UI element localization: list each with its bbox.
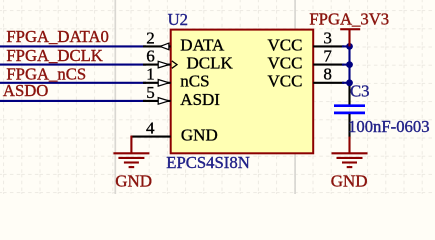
junction at pin 8 — [346, 79, 353, 86]
sheet zone border line right — [294, 0, 296, 194]
wire net FPGA_nCS — [0, 82, 146, 84]
capacitor C3 top plate — [334, 104, 365, 107]
capacitor C3 top lead — [348, 86, 350, 105]
junction at pin 7 — [346, 61, 353, 68]
svg-text:U2: U2 — [168, 10, 188, 29]
svg-text:3: 3 — [323, 28, 332, 47]
svg-text:8: 8 — [323, 65, 332, 84]
svg-text:100nF-0603: 100nF-0603 — [348, 117, 430, 136]
svg-text:FPGA_DATA0: FPGA_DATA0 — [6, 27, 109, 46]
power ground stem (right) — [348, 137, 350, 154]
wire VCC vertical rail — [348, 45, 350, 87]
wire net ASDO — [0, 100, 146, 102]
svg-text:4: 4 — [146, 119, 155, 138]
pin 2 DATA — [143, 45, 171, 47]
sheet zone border line left — [114, 0, 116, 194]
pin 5 input arrow — [158, 98, 169, 105]
svg-text:VCC: VCC — [268, 54, 303, 73]
pin 5 ASDI — [143, 100, 171, 102]
capacitor C3 bottom lead — [348, 114, 350, 137]
svg-text:VCC: VCC — [268, 72, 303, 91]
svg-text:7: 7 — [323, 47, 332, 66]
svg-text:FPGA_DCLK: FPGA_DCLK — [6, 46, 102, 65]
pin 6 clock symbol — [172, 61, 177, 68]
pin 1 nCS — [143, 82, 171, 84]
svg-text:1: 1 — [146, 65, 155, 84]
svg-text:FPGA_3V3: FPGA_3V3 — [309, 10, 389, 29]
pin 2 output arrow — [160, 43, 169, 50]
pin 6 DCLK — [143, 64, 171, 66]
svg-text:nCS: nCS — [180, 72, 209, 91]
svg-text:C3: C3 — [350, 82, 369, 101]
pin 6 input arrow — [158, 61, 169, 68]
svg-text:EPCS4SI8N: EPCS4SI8N — [166, 153, 249, 172]
svg-text:ASDO: ASDO — [3, 81, 48, 100]
power ground symbol (right) — [332, 153, 368, 167]
pin 3 VCC — [313, 45, 344, 47]
svg-text:6: 6 — [146, 47, 155, 66]
svg-text:ASDI: ASDI — [180, 90, 220, 109]
wire net FPGA_DATA0 — [0, 45, 146, 47]
pin 4 GND — [131, 136, 171, 138]
svg-text:2: 2 — [146, 28, 155, 47]
svg-text:GND: GND — [115, 171, 152, 190]
power port FPGA_3V3 stem — [348, 29, 350, 46]
svg-text:GND: GND — [181, 126, 218, 145]
junction at pin 3 — [346, 43, 353, 50]
component U2 body (EPCS4SI8N) — [171, 30, 314, 154]
pin 8 VCC — [313, 82, 344, 84]
power port FPGA_3V3 bar — [340, 28, 360, 30]
power ground symbol (left) — [113, 153, 149, 167]
wire VCC rail horizontal stubs — [342, 45, 351, 47]
pin 1 input arrow — [158, 80, 169, 87]
svg-text:5: 5 — [146, 83, 155, 102]
svg-text:DATA: DATA — [180, 35, 225, 54]
svg-text:VCC: VCC — [268, 35, 303, 54]
svg-text:GND: GND — [331, 171, 368, 190]
capacitor C3 bottom plate — [334, 112, 365, 115]
wire net FPGA_DCLK — [0, 64, 146, 66]
pin 7 VCC — [313, 64, 344, 66]
power ground stem (left, pin 4) — [130, 136, 132, 154]
svg-text:DCLK: DCLK — [187, 54, 234, 73]
